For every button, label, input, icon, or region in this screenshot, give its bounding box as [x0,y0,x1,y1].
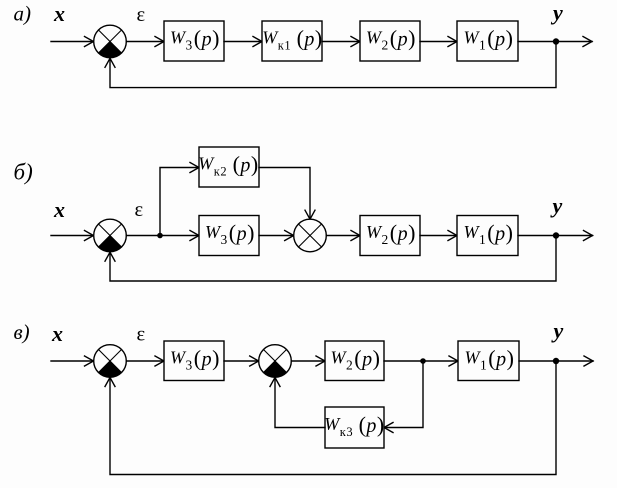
summer S2b [294,219,327,252]
svg-text:x: x [53,1,65,26]
wire row b feedback [105,236,556,282]
block W3 (row v) [164,341,224,381]
svg-text:ε: ε [137,324,146,346]
wire row b output [518,231,593,241]
wire S1v to W3v [126,356,164,366]
block Wk3 (row v) [324,407,384,448]
svg-text:в): в) [14,320,30,344]
block Wk2 (row b) [198,147,259,187]
wire W3v to S2v [224,356,259,366]
wire branch to Wk2 [160,163,199,236]
block Wk1 (row a) [262,21,323,61]
wire Wk1 to W2a [322,37,360,47]
wire row a feedback [105,42,556,88]
wire Wk2 to S2b [259,168,315,220]
node junction dot (row v output) [553,358,559,364]
node branch dot (row v) [420,358,426,364]
node junction dot (row a output) [553,38,559,44]
block W3 (row b) [199,216,259,256]
svg-text:x: x [51,321,63,346]
wire S2b to W2b [326,231,360,241]
wire W2v to W1v [384,356,458,366]
summer S1b [94,219,127,252]
block W3 (row a) [164,21,224,61]
block W2 (row v) [325,341,384,381]
wire row v output [519,356,593,366]
block W1 (row b) [457,216,518,256]
block W1 (row a) [457,21,518,61]
svg-text:ε: ε [137,4,146,26]
wire W2b to W1b [420,231,457,241]
wire Wk3 to S2v [270,378,325,428]
summer S2v [259,345,292,378]
wire W3b to S2b [259,231,294,241]
wire row v feedback [105,361,556,475]
wire W2a to W1a [420,37,457,47]
svg-text:а): а) [14,2,32,26]
wire W3a to Wk1 [224,37,262,47]
summer S1a [94,25,127,58]
wire row a output [518,37,592,47]
svg-text:б): б) [14,160,33,185]
block W1 (row v) [458,341,519,381]
node junction dot (row b output) [553,232,559,238]
svg-text:ε: ε [135,199,144,221]
svg-text:y: y [551,318,564,343]
svg-text:x: x [53,197,65,222]
block W2 (row a) [360,21,420,61]
wire S1b to W3b [126,231,199,241]
wire S2v to W2v [291,356,325,366]
wire branch to Wk3 [384,361,423,433]
wire row a input [51,37,94,47]
block W2 (row b) [360,216,420,256]
svg-text:y: y [550,0,563,25]
wire row v input [51,356,94,366]
summer S1v [94,345,127,378]
wire S1a to W3a [126,37,164,47]
wire row b input [51,231,94,241]
svg-text:y: y [550,193,563,218]
node branch dot (row b) [157,233,163,239]
